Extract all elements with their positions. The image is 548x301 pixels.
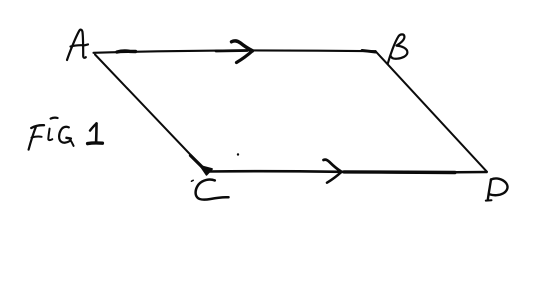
wire side AB (top edge) [94,50,376,52]
i stem [48,129,52,141]
i dash [51,117,58,120]
stray dot above CD [237,153,239,155]
vertex label C [192,180,229,200]
wire overdraw on AC near C [191,156,206,171]
wire overdraw blob on AB near A [117,51,136,52]
1 stem [95,123,98,142]
wire side CD (bottom edge) [206,171,487,172]
1 base [88,141,103,145]
vertex label B (beta) [388,34,408,63]
1 flag [90,123,97,130]
wire side BD (right edge) [376,51,488,172]
wire side AC (left edge) [95,55,206,171]
wire overdraw on CD right of arrow [344,170,455,174]
G curve [59,127,70,143]
arrow head on CD [324,160,342,172]
F middle bar [32,137,42,138]
wire overdraw on AB before arrow [216,49,247,52]
G tail [70,140,73,146]
F top bar [31,125,44,128]
vertex label A [67,30,88,60]
vertex label D [486,178,508,200]
arrow head on AB [232,41,253,51]
node C junction blob [201,166,213,175]
G crossbar [67,137,71,140]
F stem [29,127,36,150]
caption FiG 1 [29,118,103,150]
wire overdraw at B bend [362,50,376,52]
